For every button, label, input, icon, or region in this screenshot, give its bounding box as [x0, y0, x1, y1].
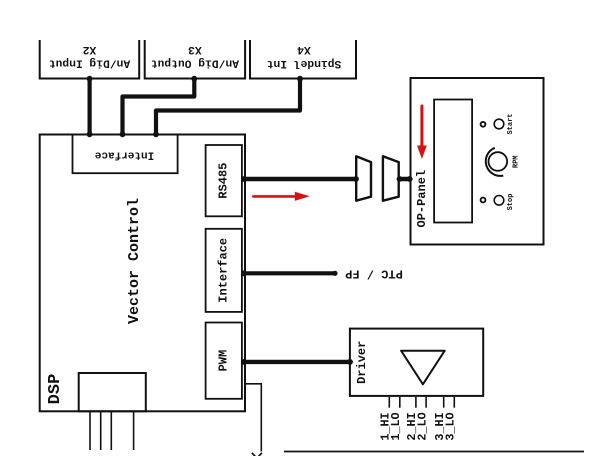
- red arrow right: [253, 192, 309, 201]
- wire PWM to Driver: [241, 359, 353, 365]
- driver pin 1_HI: [379, 397, 393, 441]
- button start: [494, 119, 504, 129]
- block Driver: [350, 329, 483, 396]
- svg-text:X3: X3: [188, 43, 202, 55]
- svg-text:Stop: Stop: [507, 194, 515, 211]
- svg-text:Vector Control: Vector Control: [126, 198, 143, 324]
- wire X3 to Interface: [120, 76, 198, 137]
- svg-text:RPM: RPM: [513, 155, 521, 168]
- amplifier triangle: [401, 351, 445, 385]
- block X2 An/Dig Input: [40, 40, 140, 79]
- svg-text:3_LO: 3_LO: [444, 412, 458, 440]
- svg-text:An/Dig Input: An/Dig Input: [49, 57, 130, 69]
- connector plug left: [356, 156, 371, 200]
- driver pin 2_HI: [405, 397, 419, 441]
- block Interface right: [206, 229, 242, 312]
- svg-text:X4: X4: [297, 43, 311, 55]
- svg-text:PWM: PWM: [216, 350, 230, 372]
- wire Interface to PTC: [241, 270, 338, 276]
- block OP-Panel: [411, 78, 544, 245]
- driver pin 1_LO: [389, 397, 403, 441]
- DSP pin 1: [89, 412, 91, 451]
- DSP pin 3: [110, 412, 112, 451]
- block DSP chip: [79, 373, 146, 411]
- svg-text:X2: X2: [83, 43, 97, 55]
- driver pin 2_LO: [415, 397, 429, 441]
- button stop: [494, 196, 504, 206]
- svg-text:Interface: Interface: [94, 149, 154, 161]
- LED start: [481, 122, 486, 127]
- svg-text:An/Dig Output: An/Dig Output: [151, 57, 239, 69]
- DSP pin 4: [133, 412, 135, 451]
- wire PWM down: [246, 384, 261, 452]
- svg-text:Interface: Interface: [216, 238, 230, 303]
- svg-text:RS485: RS485: [216, 163, 230, 199]
- driver pin 3_LO: [444, 397, 458, 441]
- arrowhead down: [252, 453, 262, 456]
- svg-text:Spindel Int: Spindel Int: [267, 57, 342, 69]
- bottom bus line: [284, 451, 584, 453]
- svg-text:Start: Start: [507, 113, 515, 134]
- driver pin 3_HI: [433, 397, 447, 441]
- svg-text:DSP: DSP: [46, 374, 65, 405]
- LED stop: [481, 198, 486, 203]
- display: [434, 100, 472, 223]
- knob RPM: [489, 152, 508, 171]
- wire connector to OP-Panel: [397, 176, 413, 182]
- knob arc: [486, 148, 504, 176]
- svg-text:Driver: Driver: [355, 341, 369, 384]
- svg-text:2_LO: 2_LO: [415, 412, 429, 440]
- block RS485: [206, 145, 242, 216]
- svg-text:OP-Panel: OP-Panel: [415, 170, 429, 228]
- wire RS485 to connector: [241, 176, 359, 182]
- block PWM: [206, 323, 242, 399]
- wire X4 to Interface: [153, 76, 303, 137]
- wire X2 to Interface: [87, 76, 93, 137]
- DSP pin 2: [100, 412, 102, 451]
- red arrow down: [417, 106, 427, 159]
- connector plug right: [383, 156, 399, 200]
- block X3 An/Dig Output: [145, 40, 245, 79]
- block X4 Spindel Int: [250, 40, 356, 79]
- svg-text:PTC / FP: PTC / FP: [345, 266, 403, 280]
- block Interface top: [73, 135, 178, 174]
- block Vector Control: [40, 135, 245, 412]
- svg-text:1_LO: 1_LO: [389, 412, 403, 440]
